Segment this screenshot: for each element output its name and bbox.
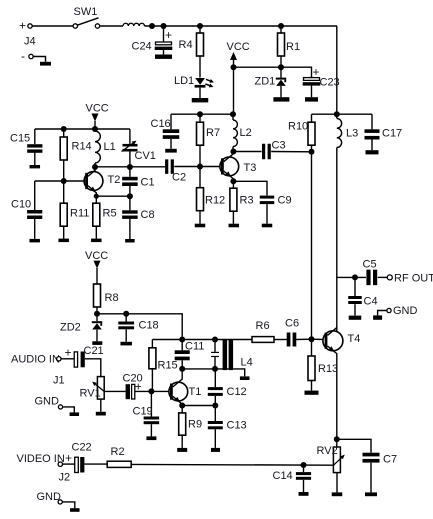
svg-text:RF OUT: RF OUT (394, 273, 433, 285)
svg-text:C2: C2 (172, 172, 186, 184)
svg-text:R12: R12 (205, 195, 225, 207)
svg-text:R3: R3 (240, 195, 254, 207)
svg-text:+: + (313, 65, 320, 79)
capacitor C18 (118, 314, 158, 342)
label T4 (348, 333, 361, 345)
resistor R5 (93, 196, 117, 238)
potentiometer RV2 (317, 439, 347, 492)
capacitor C17 (365, 114, 403, 150)
wire L4 to ground (233, 369, 245, 377)
svg-text:+: + (65, 346, 72, 360)
wire GND J1 (63, 407, 75, 413)
variable capacitor CV1 (120, 129, 156, 167)
transistor T2 (84, 172, 103, 195)
svg-text:T4: T4 (348, 333, 361, 345)
junction VCC node (231, 64, 237, 70)
svg-text:T3: T3 (244, 162, 257, 174)
ground C17 (366, 150, 379, 154)
wire L4 bottom line (182, 368, 233, 370)
label T3 (244, 162, 257, 174)
terminal VIDEO IN (17, 453, 65, 466)
wire LD1 to ground (199, 88, 201, 98)
junction T1 emitter node (179, 403, 185, 409)
wire J4 minus to ground (33, 57, 45, 62)
resistor R7 (197, 114, 221, 166)
svg-text:RV2: RV2 (317, 445, 338, 457)
wire C2 to T3 base (174, 166, 221, 168)
label T2 (108, 174, 121, 186)
resistor R13 (308, 339, 338, 390)
wire AUDIO IN to C21 (61, 358, 74, 360)
capacitor C12 (208, 369, 247, 406)
terminal GND (J2) (37, 491, 63, 504)
zener diode ZD2 (60, 314, 102, 342)
wire R10 node down to T4 base (311, 152, 313, 339)
capacitor C4 (348, 277, 377, 315)
junction T2 base / R14 R11 (61, 178, 67, 184)
resistor R15 (149, 348, 178, 392)
ground C16 (165, 149, 177, 153)
capacitor internal L4 (211, 340, 219, 369)
svg-text:C17: C17 (382, 128, 402, 140)
wire choke to corner (145, 25, 338, 27)
wire GND J2 (62, 502, 75, 508)
svg-text:C13: C13 (227, 420, 247, 432)
ground GND J1 (70, 412, 80, 416)
junction T4 base node (309, 336, 315, 342)
svg-text:R14: R14 (72, 141, 92, 153)
svg-text:C14: C14 (273, 470, 293, 482)
svg-text:RV1: RV1 (80, 388, 101, 400)
svg-text:R2: R2 (111, 446, 125, 458)
resistor R6 (252, 320, 274, 342)
junction ZD1 tap (278, 64, 284, 70)
terminal RF OUT (387, 273, 433, 285)
ground LD1 (192, 98, 209, 102)
junction C24 tap (161, 23, 167, 29)
svg-text:C1: C1 (141, 177, 155, 189)
svg-text:CV1: CV1 (135, 150, 156, 162)
ground C19 (146, 436, 156, 440)
svg-text:R10: R10 (288, 121, 308, 133)
connector J4 minus terminal (21, 49, 33, 63)
transistor T3 (220, 157, 239, 179)
capacitor C2 (165, 159, 186, 183)
resistor R4 (179, 26, 204, 78)
terminal GND (RF) (387, 305, 418, 317)
junction R15 C19 node (148, 388, 154, 394)
junction L2 top (230, 111, 236, 117)
svg-text:GND: GND (393, 305, 418, 317)
wire emitter line (96, 195, 130, 197)
junction L1 top (92, 126, 98, 132)
ground C8 (125, 239, 134, 243)
capacitor C24 (132, 26, 173, 55)
junction L4 cap bottom (212, 366, 218, 372)
wire RV2 node to C7 (337, 439, 371, 452)
resistor R8 (94, 284, 119, 314)
svg-text:R15: R15 (158, 360, 178, 372)
capacitor C3 (262, 140, 286, 160)
label T1 (189, 386, 202, 398)
svg-text:T1: T1 (189, 386, 202, 398)
svg-text:J4: J4 (24, 36, 36, 48)
resistor R3 (230, 181, 254, 223)
wire T3 emitter (224, 171, 234, 181)
capacitor C23 (303, 65, 340, 97)
transistor T4 (323, 331, 343, 354)
svg-text:R8: R8 (105, 292, 119, 304)
svg-text:R13: R13 (318, 363, 338, 375)
junction T3 base / R7 R12 (197, 164, 203, 170)
svg-text:C21: C21 (84, 345, 104, 357)
capacitor C6 (285, 318, 299, 347)
junction R10 bottom node (309, 149, 315, 155)
junction C11 top (179, 337, 185, 343)
resistor R9 (179, 406, 202, 448)
svg-text:C6: C6 (285, 318, 299, 330)
resistor R10 (288, 114, 315, 152)
resistor R11 (60, 181, 89, 239)
svg-text:T2: T2 (108, 174, 121, 186)
wire T1 emitter (173, 396, 183, 405)
wire T4 emitter (328, 346, 337, 439)
wire C3 line (233, 151, 311, 153)
wire C22 to R2 (84, 463, 107, 465)
terminal AUDIO IN (11, 354, 61, 366)
capacitor C7 (363, 453, 398, 493)
wire emitter to C9 (233, 181, 267, 195)
svg-text:C11: C11 (185, 341, 204, 353)
ground C13 (211, 448, 220, 452)
wire C10 corner (34, 181, 36, 210)
ground R11 (58, 239, 68, 243)
wire C20 to T1 base (135, 390, 170, 392)
wire VCC node to C23 (234, 67, 312, 77)
wire GND terminal (378, 311, 387, 316)
capacitor C11 (175, 340, 205, 369)
wire R15 corner (151, 340, 153, 348)
svg-text:C18: C18 (139, 320, 159, 332)
resistor R1 (278, 26, 301, 67)
wire rail y114 right (312, 113, 373, 115)
svg-text:R9: R9 (188, 419, 202, 431)
zener diode ZD1 (255, 67, 287, 97)
junction C14 tap (301, 462, 307, 468)
junction node A (149, 23, 155, 29)
ground RV2 (332, 492, 343, 496)
resistor R2 (107, 446, 131, 467)
svg-text:C4: C4 (364, 296, 378, 308)
svg-text:L3: L3 (346, 128, 358, 140)
ground R12 (195, 224, 206, 228)
wire video line (131, 463, 333, 466)
power VCC (modulator) (85, 250, 108, 284)
svg-text:VCC: VCC (86, 103, 109, 115)
ground L4 (240, 376, 250, 380)
transistor T1 (169, 382, 188, 404)
wire SW1 to choke (100, 25, 123, 27)
inductor L3 (337, 114, 358, 147)
svg-text:VCC: VCC (227, 41, 250, 53)
connector J4 plus terminal (19, 19, 32, 33)
terminal GND (J1) (35, 396, 63, 410)
svg-text:GND: GND (35, 396, 60, 408)
wire modulator line (152, 338, 311, 340)
wire T2 base line (35, 180, 86, 182)
ground R5 (91, 239, 102, 243)
LED LD1 (174, 75, 215, 89)
junction T3 emitter node (230, 178, 236, 184)
ground J4 (40, 62, 51, 66)
wire oscillator rail (35, 128, 130, 130)
wire J4 plus to SW1 (32, 25, 73, 27)
capacitor C19 (133, 391, 160, 436)
ground ZD1 (273, 97, 289, 101)
wire C5 to RF OUT (378, 276, 388, 278)
svg-text:VCC: VCC (85, 250, 108, 262)
svg-text:R4: R4 (179, 39, 193, 51)
junction R8 bottom node (94, 311, 100, 317)
ground R9 (177, 448, 187, 452)
ground C18 (120, 342, 132, 346)
ground GND terminal (373, 315, 382, 319)
capacitor C16 (151, 114, 180, 149)
junction C1 C8 node (127, 193, 133, 199)
power VCC (oscillator) (86, 103, 109, 130)
svg-text:SW1: SW1 (74, 6, 98, 18)
svg-text:C12: C12 (227, 386, 247, 398)
junction L1 bottom / T2 collector (92, 164, 98, 170)
wire T2 emitter (88, 186, 96, 197)
ground C24 (155, 55, 172, 59)
switch SW1 (73, 6, 100, 28)
potentiometer RV1 (80, 377, 106, 412)
resistor R14 (60, 129, 91, 181)
capacitor C9 (260, 195, 292, 224)
inductor L2 (233, 114, 252, 151)
svg-text:C23: C23 (320, 77, 340, 89)
svg-text:C7: C7 (383, 454, 397, 466)
svg-text:R7: R7 (206, 127, 220, 139)
inductor L4 (223, 340, 253, 371)
ground C15 (30, 165, 41, 168)
wire collector line to C2 (95, 166, 165, 168)
wire L3 down to T4 collector (336, 148, 338, 332)
svg-text:C16: C16 (151, 118, 171, 130)
capacitor C22 (65, 442, 92, 473)
svg-text:R11: R11 (70, 208, 89, 220)
capacitor C14 (273, 465, 312, 492)
label J4 (24, 36, 36, 48)
ground C23 (305, 97, 318, 101)
capacitor C15 (10, 129, 42, 165)
junction L2 bottom / T3 collector (230, 149, 236, 155)
junction R14 top (61, 126, 67, 132)
wire T3 collector (224, 152, 234, 162)
junction R1 tap (278, 23, 284, 29)
svg-text:J1: J1 (53, 375, 65, 387)
ground GND J2 (70, 508, 80, 512)
wire VIDEO IN to C22 (62, 463, 74, 465)
capacitor C20 (123, 373, 143, 400)
capacitor C21 (65, 345, 104, 367)
wire VCC node down to L2 rail (233, 67, 235, 114)
svg-text:C3: C3 (272, 140, 286, 152)
junction C12 bottom node (212, 403, 218, 409)
junction R7 top (197, 111, 203, 117)
svg-text:-: - (21, 49, 25, 63)
power VCC (top) (227, 41, 250, 67)
svg-text:ZD1: ZD1 (255, 76, 276, 88)
ground C7 (365, 492, 377, 496)
wire top rail right corner (336, 26, 338, 114)
wire T1 emitter line (182, 405, 215, 407)
svg-text:C10: C10 (11, 199, 31, 211)
wire C21 to RV1 (85, 359, 101, 377)
wire RF tap (337, 276, 366, 278)
wire T4 base line (312, 338, 325, 340)
ground C14 (299, 492, 309, 496)
svg-text:R6: R6 (256, 320, 270, 332)
ground R3 (229, 224, 240, 228)
junction T2 emitter node (94, 194, 99, 199)
label J1 (53, 375, 65, 387)
junction RV2 node (334, 436, 340, 442)
junction C18 tap (123, 311, 129, 317)
wire T4 collector (328, 328, 337, 336)
junction L4 cap top (212, 337, 218, 343)
capacitor C13 (208, 406, 247, 448)
ground ZD2 (92, 341, 102, 345)
svg-text:C24: C24 (132, 41, 152, 53)
inductor choke (top rail) (123, 23, 145, 26)
junction R4 tap (197, 23, 203, 29)
svg-text:+: + (19, 19, 26, 33)
junction C11 bottom / T1 collector (179, 366, 185, 372)
capacitor C5 (363, 259, 378, 286)
capacitor C8 (122, 196, 154, 239)
svg-text:C9: C9 (278, 195, 292, 207)
wire T1 collector (173, 369, 183, 387)
wire rail y114 left (171, 113, 233, 115)
svg-text:C5: C5 (363, 259, 377, 271)
svg-text:C19: C19 (133, 406, 153, 418)
svg-text:R1: R1 (286, 41, 300, 53)
svg-text:+: + (165, 28, 172, 42)
svg-text:C8: C8 (141, 209, 155, 221)
junction L3 top (334, 111, 340, 117)
ground C9 (262, 224, 273, 228)
svg-text:L4: L4 (241, 357, 253, 369)
inductor L1 (95, 131, 116, 167)
ground R13 (305, 391, 319, 395)
ground C10 (29, 239, 40, 243)
svg-text:AUDIO IN: AUDIO IN (11, 354, 60, 366)
svg-text:L1: L1 (104, 141, 116, 153)
svg-text:ZD2: ZD2 (60, 322, 81, 334)
label J2 (59, 472, 71, 484)
ground C4 (349, 316, 362, 320)
capacitor C10 (11, 199, 42, 239)
wire T2 collector (88, 167, 95, 176)
svg-text:R5: R5 (103, 208, 117, 220)
svg-text:C15: C15 (10, 133, 30, 145)
junction C4 tap (352, 274, 358, 280)
wire R8 node to C18 and corner (97, 314, 182, 340)
svg-text:LD1: LD1 (174, 75, 194, 87)
svg-text:GND: GND (37, 491, 62, 503)
junction CV1 bottom (127, 164, 133, 170)
svg-text:VIDEO IN: VIDEO IN (17, 453, 65, 465)
svg-text:C22: C22 (72, 442, 92, 454)
svg-text:J2: J2 (59, 472, 71, 484)
ground RV1 (96, 412, 106, 416)
resistor R12 (197, 167, 226, 224)
wire RV1 wiper to C20 (104, 390, 125, 392)
capacitor C1 (122, 167, 154, 196)
svg-text:L2: L2 (240, 127, 252, 139)
